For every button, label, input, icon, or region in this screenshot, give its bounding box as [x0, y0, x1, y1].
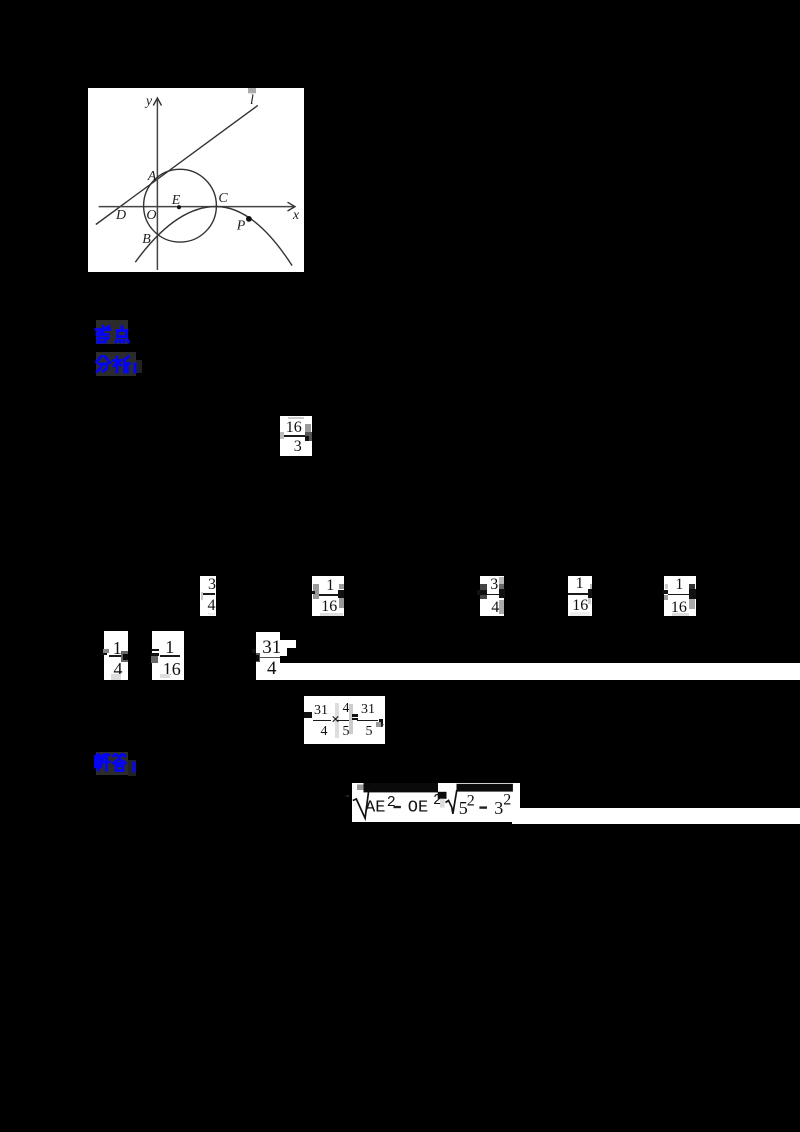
svg-text:OE: OE: [407, 799, 427, 818]
svg-text:O: O: [146, 208, 156, 223]
svg-text:3: 3: [494, 798, 503, 818]
svg-text:D: D: [115, 208, 126, 223]
svg-text:B: B: [142, 232, 151, 247]
svg-text:C: C: [218, 191, 228, 206]
svg-text:2: 2: [503, 792, 511, 809]
svg-text:2: 2: [466, 792, 474, 809]
svg-text:2: 2: [386, 794, 395, 811]
svg-text:x: x: [292, 208, 300, 223]
svg-text:y: y: [144, 94, 153, 109]
svg-text:P: P: [236, 219, 246, 234]
svg-text:A: A: [147, 169, 157, 184]
svg-text:E: E: [171, 193, 181, 208]
svg-text:l: l: [250, 93, 254, 108]
svg-text:AE: AE: [365, 799, 385, 818]
